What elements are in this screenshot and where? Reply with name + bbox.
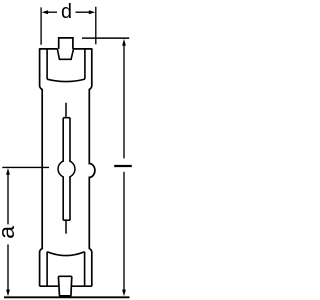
dimension l: vertical line lower segment: [123, 172, 125, 291]
cap meniscus arc bottom: [47, 252, 85, 256]
svg-text:d: d: [61, 1, 72, 23]
dimension a: top arrowhead: [6, 168, 10, 175]
top pinch trapezoid: [57, 49, 73, 59]
electrode wire top: [65, 103, 67, 118]
baseline bottom reference: [4, 296, 130, 298]
electrode sleeve left line: [62, 118, 64, 221]
cap top edge left segment: [40, 48, 58, 50]
bottom contact pin: [58, 276, 71, 296]
cap inner sleeve left bottom: [46, 252, 48, 286]
electrode sleeve right line: [69, 118, 71, 221]
electrode sleeve top bar: [63, 117, 70, 119]
dimension d: right extension line: [95, 7, 97, 45]
dimension a: vertical line upper segment: [7, 174, 9, 224]
dimension a: extension line: [2, 166, 49, 168]
lamp outline left side: [40, 48, 43, 286]
dimension a: bottom arrowhead: [6, 290, 10, 297]
cap bottom edge right segment: [72, 285, 92, 287]
svg-text:a: a: [0, 225, 19, 239]
dimension l: top arrowhead: [122, 39, 126, 46]
white mask over circle for sleeve opening: [64, 157, 69, 181]
dimension l: vertical line upper segment: [123, 45, 125, 158]
cap inner sleeve right top: [84, 49, 86, 79]
dimension d: left shaft: [48, 11, 58, 13]
dimension l: bottom arrowhead: [122, 290, 126, 297]
electrode sleeve bottom bar: [63, 219, 70, 221]
dimension d: right shaft: [76, 11, 90, 13]
cap inner sleeve left top: [46, 49, 48, 79]
dimension d: left extension line: [40, 7, 42, 44]
cap bottom edge left segment: [40, 285, 59, 287]
lamp outline right side with pip: [89, 48, 95, 286]
cap inner sleeve right bottom: [84, 252, 86, 286]
dimension d: right arrowhead: [89, 10, 95, 14]
dimension l: label l (rotated bar): [114, 165, 132, 167]
electrode wire bottom: [65, 220, 67, 234]
dimension a: vertical line lower segment: [7, 244, 9, 291]
cap meniscus arc top: [47, 79, 85, 81]
arc tube circle: [58, 161, 75, 178]
cap top edge right segment: [73, 48, 92, 50]
dimension d: left arrowhead: [42, 10, 48, 14]
top contact pin: [59, 38, 73, 49]
leader line top (l reference): [82, 37, 129, 39]
